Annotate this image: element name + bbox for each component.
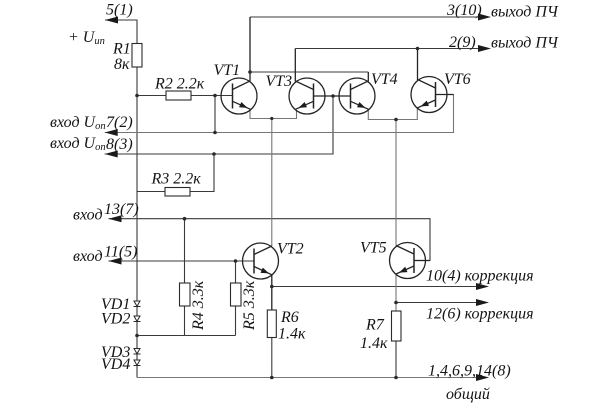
svg-text:R2 2.2к: R2 2.2к [154,76,205,93]
svg-text:VT6: VT6 [444,71,471,88]
svg-text:VT4: VT4 [371,71,398,88]
svg-text:R5 3.3к: R5 3.3к [241,280,258,331]
svg-text:выход ПЧ: выход ПЧ [491,4,559,21]
svg-text:12(6) коррекция: 12(6) коррекция [426,306,534,323]
svg-text:11(5): 11(5) [104,244,137,261]
svg-text:вход: вход [73,207,103,224]
svg-text:VT3: VT3 [266,73,293,90]
svg-text:вход: вход [73,248,103,265]
svg-text:выход ПЧ: выход ПЧ [491,35,559,52]
svg-text:8к: 8к [114,56,130,73]
svg-text:10(4) коррекция: 10(4) коррекция [426,268,534,285]
svg-text:7(2): 7(2) [106,114,133,131]
svg-text:1.4к: 1.4к [278,326,306,343]
svg-text:R1: R1 [112,41,131,58]
svg-text:VT1: VT1 [214,62,241,79]
svg-text:вход Uоп: вход Uоп [50,135,106,153]
svg-text:VD2: VD2 [101,311,130,328]
svg-text:5(1): 5(1) [106,2,133,19]
svg-text:R4 3.3к: R4 3.3к [190,280,207,331]
svg-text:R3 2.2к: R3 2.2к [151,171,202,188]
svg-text:+ Uип: + Uип [68,29,105,47]
svg-text:вход Uоп: вход Uоп [50,114,106,132]
svg-text:VT2: VT2 [277,241,304,258]
svg-text:13(7): 13(7) [104,201,139,218]
svg-text:общий: общий [446,386,490,403]
svg-text:1,4,6,9,14(8): 1,4,6,9,14(8) [428,363,511,380]
svg-text:8(3): 8(3) [106,136,133,153]
svg-text:2(9): 2(9) [449,34,476,51]
svg-text:1.4к: 1.4к [360,335,388,352]
svg-text:VD4: VD4 [101,356,130,373]
svg-text:R6: R6 [280,309,299,326]
svg-text:VT5: VT5 [360,240,387,257]
svg-text:R7: R7 [365,317,385,334]
svg-text:3(10): 3(10) [446,2,482,19]
